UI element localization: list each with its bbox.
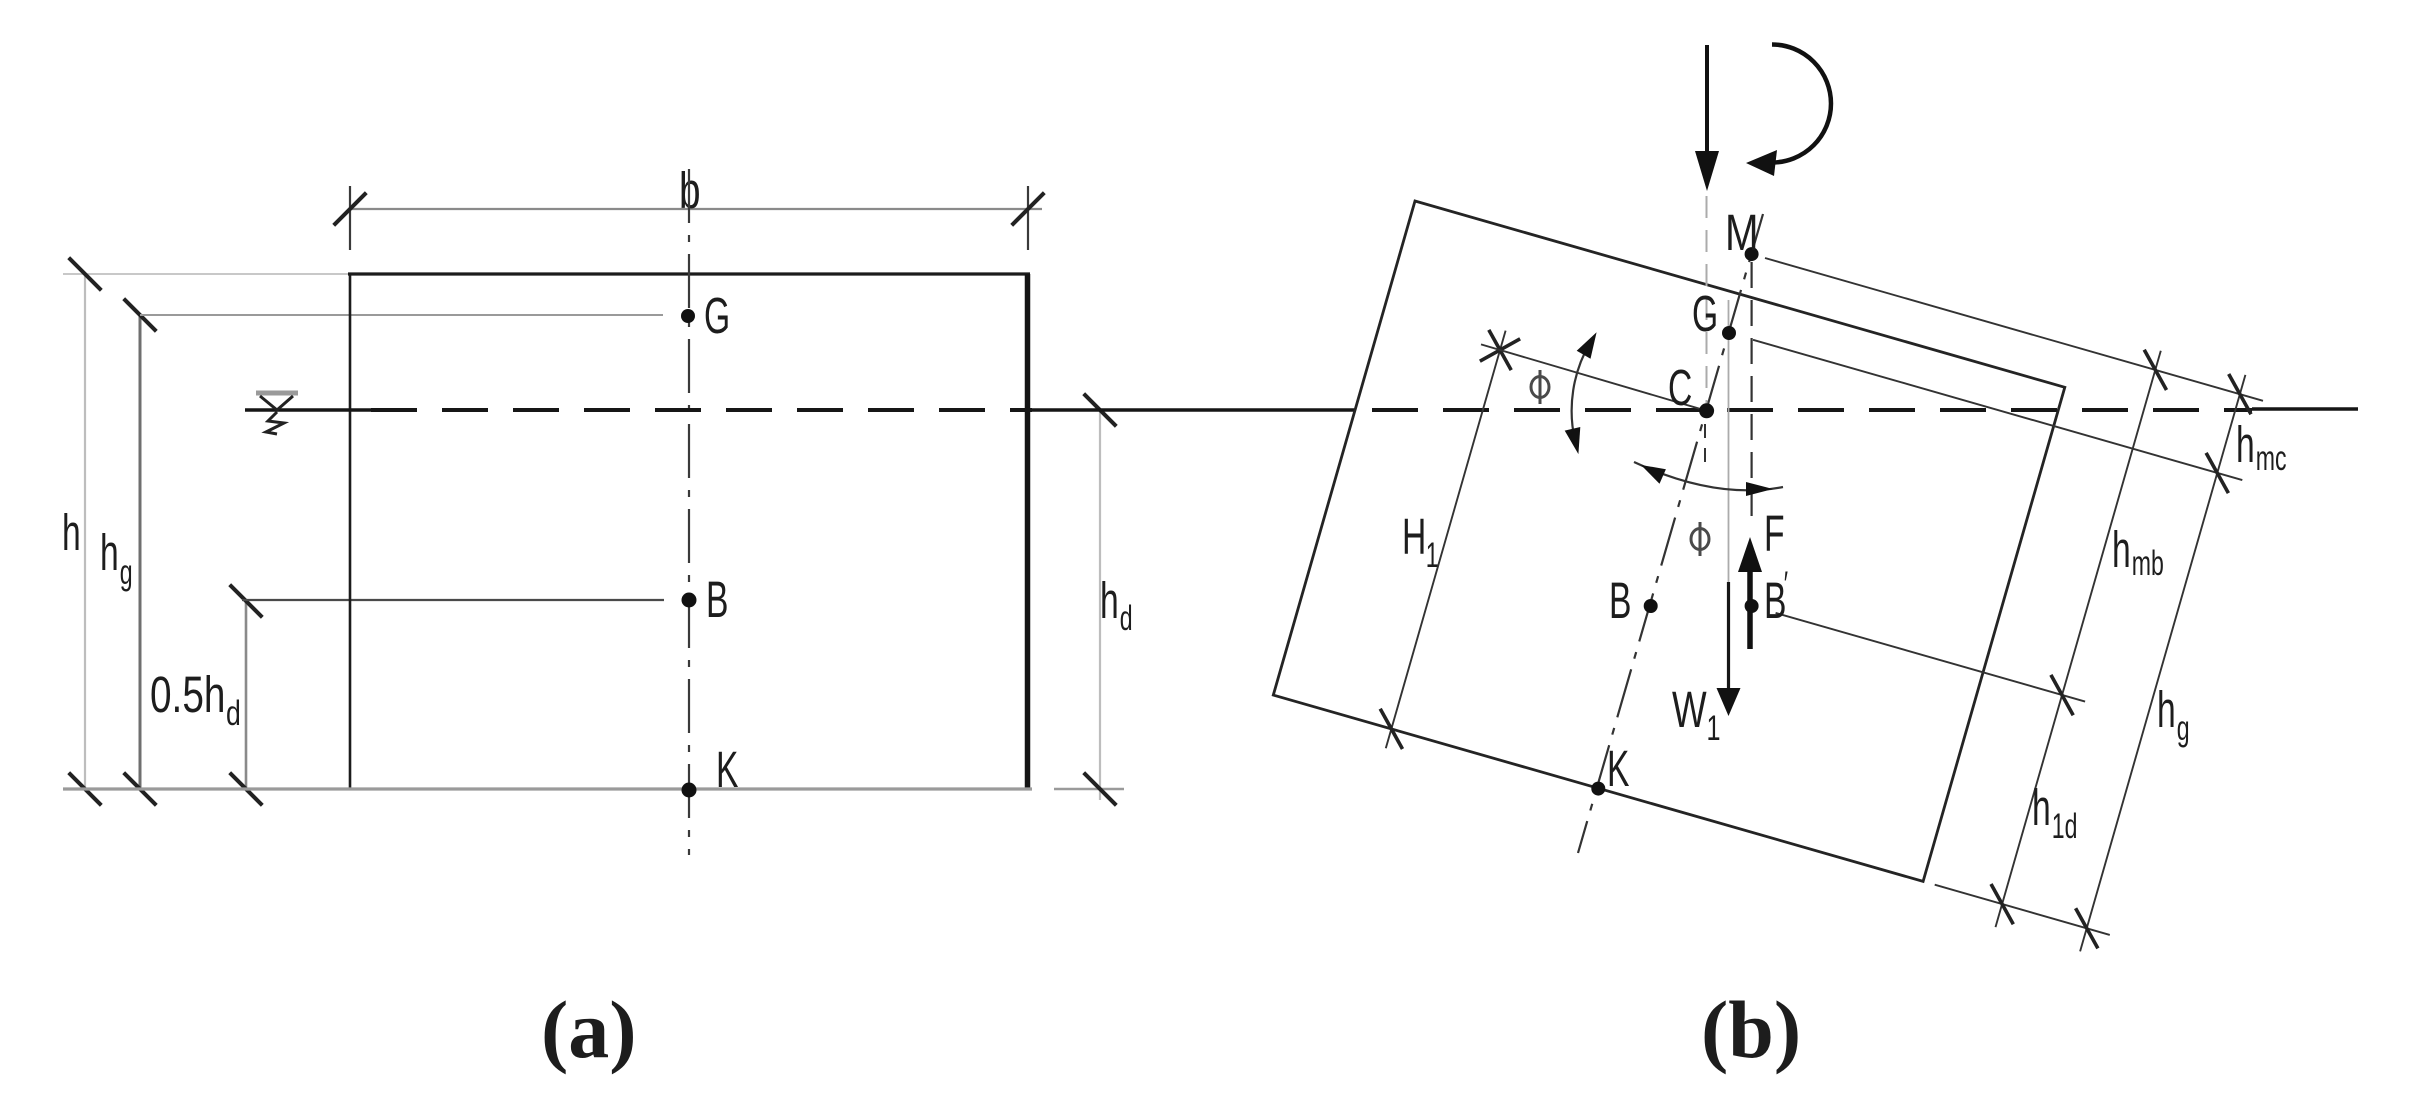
tick h bottom [69,773,102,806]
svg-text:d: d [226,693,241,732]
label 0.5hd [150,666,241,733]
svg-text:g: g [2177,709,2190,748]
svg-text:B: B [1764,573,1786,630]
svg-text:B: B [706,572,728,629]
rectangle body section: top edge [348,272,1030,275]
label hd [1100,573,1133,638]
tick b right [1012,193,1045,226]
wire bottom corner extension line [1935,885,2110,935]
wire vertical through M dashed [1750,262,1752,528]
label B [706,572,728,629]
label K (b) [1607,741,1630,798]
svg-text:F: F [1764,506,1785,563]
force F arrow up [1738,537,1762,572]
svg-text:W: W [1672,682,1707,738]
svg-text:G: G [704,288,730,345]
water line dashed through section [371,408,1032,412]
wire center line of section (dash-dot) [688,169,690,855]
moment arc arrow [1772,45,1831,163]
svg-text:(a): (a) [541,984,637,1075]
wire tilted center line (dash-dot) [1578,214,1763,853]
svg-text:h: h [2157,682,2176,739]
svg-text:h: h [100,525,119,582]
tick hd top [1084,394,1117,427]
tilted body rectangle [1273,201,2065,881]
wire h dimension line [84,274,86,789]
svg-text:(b): (b) [1701,984,1801,1075]
wire tilted waterline segment to C [1481,344,1707,410]
load arrow down at top [1705,45,1709,155]
wire M extension line [1765,258,2263,401]
weight W1 arrow down [1727,582,1730,690]
wire b extension right [1027,186,1029,250]
label W1 [1672,682,1721,748]
tick h top [69,258,102,291]
node B dot [682,593,697,608]
svg-text:h: h [2236,417,2255,474]
tick H1 top shallow [1480,339,1520,361]
svg-text:H: H [1402,509,1426,566]
wire H1 dimension line [1386,331,1506,749]
tick hg top [124,299,157,332]
svg-text:mc: mc [2256,439,2287,478]
wire hd dimension line [1099,412,1101,800]
label hmb [2112,522,2164,583]
node top extension gray [63,273,348,275]
wire b dimension line [350,208,1042,210]
svg-text:g: g [120,553,133,592]
label hmc [2236,417,2287,478]
label hg [100,525,133,592]
svg-text:K: K [1607,741,1630,798]
svg-text:1: 1 [1426,536,1439,575]
svg-text:h: h [1100,573,1119,630]
tick hd bottom [1084,773,1117,806]
wire dimension line L2 (hmb + h1d) [1996,351,2161,927]
tick H1 bottom [1380,709,1402,749]
wire dimension line L1 (hmc + hg) [2080,375,2245,952]
tick H1 top steep [1489,330,1511,370]
node G dot (b) [1722,326,1736,340]
wire 0.5hd dimension line [245,601,248,789]
caption (b) [1701,984,1801,1075]
label phi upper [1531,370,1549,404]
wire vertical through C gray dashed [1706,196,1708,404]
label G (b) [1692,286,1718,343]
tick b left [334,193,367,226]
water line solid left [245,408,371,412]
water line dashed right [1372,408,2252,412]
tick L2 at B' ext [2051,675,2073,715]
svg-text:′: ′ [1784,565,1788,604]
svg-text:h: h [62,505,81,562]
wire B level extension [242,599,664,601]
svg-text:h: h [2112,522,2131,579]
label K [716,742,739,799]
wire B' extension line [1776,613,2086,702]
svg-text:h: h [2032,780,2051,837]
tick hg bottom [124,773,157,806]
wire G extension line [1753,340,2242,480]
label G [704,288,730,345]
tick L1 at bottom ext [2076,908,2098,948]
node K dot (b) [1591,782,1605,796]
tick L1 at G ext [2206,453,2228,493]
angle phi arc upper [1572,342,1591,441]
svg-text:M: M [1725,203,1759,261]
water level symbol [256,393,298,434]
tick 0.5hd bottom [230,773,263,806]
node K dot [682,783,697,798]
node M dot [1745,247,1759,261]
wire hg dimension line [139,315,142,789]
svg-text:d: d [1120,599,1133,638]
label h [62,505,81,562]
node C dot [1699,403,1714,418]
label b [679,162,701,219]
label B (b) [1609,573,1631,630]
svg-text:C: C [1668,360,1692,417]
node hd bottom extension [1054,788,1124,791]
node G dot [681,309,695,323]
rectangle left edge [349,274,352,789]
wire b extension left [349,186,351,250]
rectangle bottom edge / base extension gray [63,787,1032,790]
tick L2 top [2144,350,2166,390]
angle phi arc lower [1634,462,1783,490]
label H1 [1402,509,1439,575]
tick L1 top [2229,374,2251,414]
label phi lower [1691,522,1709,556]
svg-text:1d: 1d [2052,807,2078,846]
wire vertical below C dark dash [1704,424,1706,470]
tick L2 at bottom ext [1991,884,2013,924]
wire vertical through G gray [1728,300,1730,582]
water line solid right end [2252,407,2358,411]
caption (a) [541,984,637,1075]
svg-text:K: K [716,742,739,799]
svg-text:B: B [1609,573,1631,630]
tick 0.5hd top [230,585,263,618]
label hg (b) [2157,682,2190,748]
svg-text:1: 1 [1707,709,1721,748]
water line solid middle [1032,408,1356,412]
label B' [1764,565,1788,629]
label h1d [2032,780,2077,846]
rectangle right edge [1025,274,1031,789]
label F [1764,506,1785,563]
label M [1725,203,1759,261]
svg-text:mb: mb [2132,544,2164,583]
svg-text:G: G [1692,286,1718,343]
label C [1668,360,1692,417]
node B' dot [1745,599,1759,613]
node B dot (b) [1644,599,1658,613]
svg-text:0.5h: 0.5h [150,666,225,723]
wire G level extension [140,314,663,316]
